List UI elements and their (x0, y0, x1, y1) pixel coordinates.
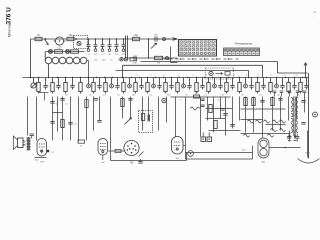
wire hlink4 (266, 124, 286, 126)
capacitor C18 (169, 78, 173, 90)
jack J5 (188, 151, 194, 157)
wire V5 anode (269, 147, 301, 149)
wire stub left (39, 93, 49, 101)
capacitor C47 (301, 123, 305, 125)
resistor R6 (155, 56, 163, 64)
node J3 (166, 57, 169, 60)
capacitor C15 (115, 78, 119, 90)
resistor R49 squiggle (191, 107, 200, 110)
capacitor C32 (50, 122, 54, 124)
svg-text:2k: 2k (241, 95, 243, 97)
resistor R52 squiggle (280, 129, 286, 132)
svg-text:xx: xx (246, 75, 248, 77)
trimmer box T1 dashed (74, 36, 88, 49)
wire vertical drops (28, 97, 305, 153)
wire hlink1 (241, 108, 286, 110)
svg-text:1731: 1731 (40, 162, 46, 164)
capacitor C2 (94, 38, 99, 56)
svg-text:376 U: 376 U (6, 7, 13, 25)
capacitor C45 (26, 134, 34, 141)
svg-text:xx: xx (164, 75, 166, 77)
tube V5 AZ1 rectifier (258, 138, 269, 164)
capacitor C50 (220, 109, 224, 111)
resistor R45 (78, 140, 85, 148)
resistor R31 (121, 99, 124, 107)
wire under V2 V3 (109, 151, 187, 161)
switch contacts left (120, 58, 137, 61)
node J1 (75, 38, 77, 40)
svg-text:1M: 1M (157, 63, 160, 65)
value labels (35, 60, 299, 106)
resistor R25 (238, 78, 241, 94)
wire coil end drop (88, 61, 90, 78)
resistor R36 (252, 98, 255, 106)
svg-text:2k: 2k (89, 95, 91, 97)
resistor R5 (133, 34, 140, 41)
capacitor C14 (97, 78, 101, 90)
node heater (47, 150, 55, 154)
transformer TR2 output (23, 137, 31, 151)
resistor R37 (271, 98, 274, 106)
capacitor C42 (295, 134, 299, 142)
svg-text:xx: xx (296, 75, 298, 77)
resistor R1 (35, 34, 42, 41)
resistor R50 bowtie (115, 149, 121, 152)
resistor R44 squiggle (268, 134, 274, 137)
lamp LS1 (54, 37, 66, 50)
capacitor C8 (133, 56, 137, 65)
switch mains S3 (201, 133, 212, 142)
node grid cap G1 (162, 98, 166, 102)
shield divider (126, 36, 128, 59)
wire hlink3 (241, 133, 291, 135)
capacitor C17 (157, 78, 161, 90)
svg-text:xx: xx (178, 75, 180, 77)
svg-text:5k: 5k (55, 104, 57, 106)
capacitor C13 (70, 78, 74, 90)
svg-text:xx: xx (258, 75, 260, 77)
wire grid link (171, 96, 231, 98)
wire shield box top A (141, 62, 308, 74)
resistor R23 (207, 78, 210, 94)
svg-text:xx: xx (270, 75, 272, 77)
resistor R21 (176, 78, 179, 94)
resistor R14 (79, 78, 82, 94)
switch S1a (49, 50, 53, 54)
capacitor C7 (154, 34, 161, 41)
svg-text:6k: 6k (297, 95, 299, 97)
capacitor C33 (68, 123, 77, 126)
tube V4 (172, 137, 184, 161)
tube V2 ECH4 (98, 139, 108, 165)
capacitor C20 (200, 78, 204, 90)
potentiometer arrow P1 (151, 43, 157, 49)
svg-text:Minerva: Minerva (8, 24, 12, 37)
resistor R30 (61, 120, 64, 128)
switch S1b (66, 50, 70, 54)
resistor R35 (244, 98, 247, 106)
contact K4 (152, 78, 156, 88)
wire second row (128, 57, 178, 59)
resistor R40 squiggle (264, 120, 270, 123)
wire bottom long A (186, 152, 253, 154)
resistor R20 (164, 78, 167, 94)
label Pressautomat (235, 42, 252, 46)
capacitor C41 (287, 134, 291, 142)
svg-text:220V: 220V (305, 153, 311, 155)
antenna arrow A (45, 38, 49, 44)
wire hlink2 (241, 119, 263, 121)
wire top input bus (31, 38, 171, 40)
transformer TR1 mains (291, 97, 298, 136)
capacitor C23 (249, 78, 253, 90)
speaker SP1 (13, 136, 23, 150)
contact K2 (110, 78, 114, 88)
contact row under S2 (164, 58, 239, 60)
capacitor C27 (304, 78, 308, 90)
capacitor C26 (292, 78, 296, 90)
switch table S2 legend (224, 48, 260, 56)
contact K6 (213, 78, 217, 88)
svg-text:xx: xx (150, 75, 152, 77)
contact K8 (275, 78, 279, 88)
label row above bus (136, 75, 298, 77)
capacitor C37 (260, 101, 264, 103)
resistor R15 (92, 78, 95, 94)
resistor R19 (146, 78, 149, 94)
resistor R33 (209, 105, 212, 113)
oscillator box dashed (206, 68, 234, 79)
capacitor C6 (122, 38, 126, 56)
wire links output stage (206, 109, 241, 131)
capacitor C31 (60, 99, 64, 101)
capacitor C12 (56, 78, 60, 90)
capacitor C3 (101, 38, 105, 56)
resistor R27 (269, 78, 272, 94)
resistor R13 (64, 78, 67, 94)
wire to switch (166, 38, 178, 41)
resistor R3 (55, 50, 63, 53)
capacitor C16 (139, 78, 143, 90)
capacitor C21 (218, 78, 222, 90)
capacitor C40 (138, 152, 143, 164)
node J2 (163, 38, 166, 41)
resistor R4 (71, 50, 79, 53)
capacitor C19 (187, 78, 191, 90)
label 220V (305, 153, 311, 155)
potentiometer P2 (31, 78, 36, 89)
label 220 (242, 150, 246, 152)
capacitor C52 (200, 105, 204, 107)
capacitor C1 (87, 38, 91, 56)
tube V1 EL3 (37, 139, 47, 164)
capacitor row top right (273, 91, 307, 97)
diode D2 (293, 131, 296, 141)
capacitor C35 (223, 114, 227, 116)
wire main bus (23, 77, 309, 78)
capacitor C4 (108, 38, 113, 56)
wire speaker link (23, 142, 26, 145)
capacitor C24 (261, 78, 265, 90)
resistor R34 (214, 121, 217, 129)
capacitor C51 (200, 99, 204, 101)
lamp LS2 (313, 112, 318, 117)
contact K5 (182, 78, 186, 88)
wire left drop (30, 39, 32, 78)
capacitor C5 (115, 38, 120, 56)
wire under V1 (35, 158, 47, 162)
capacitor C11 (43, 78, 47, 90)
svg-text:xx: xx (206, 75, 208, 77)
tube V3 socket (124, 140, 139, 164)
capacitor C25 (280, 78, 284, 90)
contact K3 (128, 78, 132, 88)
capacitor C22 (230, 78, 234, 90)
wire L link (171, 47, 178, 63)
capacitor C30 (50, 101, 54, 104)
resistor R48 (85, 100, 88, 108)
resistor R16 (104, 78, 107, 94)
transformer IF1 dashed box (139, 111, 153, 133)
resistor R11 (37, 78, 40, 94)
diode D1 (288, 131, 291, 141)
inductor L1 antenna coil (45, 52, 88, 64)
resistor R18 (134, 78, 137, 94)
resistor R2 (67, 34, 74, 41)
svg-text:15k: 15k (122, 54, 125, 56)
svg-text:2k: 2k (80, 146, 82, 148)
svg-text:xx: xx (234, 75, 236, 77)
capacitor C46 (301, 101, 305, 103)
wire band chain (46, 51, 85, 53)
svg-text:xx: xx (284, 75, 286, 77)
resistor R17 (122, 78, 125, 94)
wire bottom long B (186, 146, 253, 160)
contact K1 (87, 78, 91, 88)
potentiometer P3 arrow (125, 118, 132, 125)
svg-text:Pressautomat: Pressautomat (235, 42, 252, 46)
wire V4 link (183, 145, 186, 147)
resistor R24 (225, 78, 228, 94)
wire mains drop (307, 131, 309, 158)
capacitor C34 (128, 99, 132, 101)
resistor R22 (195, 78, 198, 94)
resistor R26 (256, 78, 259, 94)
wire right edge (308, 73, 310, 151)
resistor R41 squiggle (273, 120, 279, 123)
resistor R51 squiggle (271, 129, 277, 132)
svg-text:xx: xx (192, 75, 194, 77)
resistor R12 (51, 78, 54, 94)
svg-text:xx: xx (136, 75, 138, 77)
wire shield box top C (116, 71, 249, 78)
title Minerva 376 U (6, 7, 13, 37)
resistor R42 squiggle (280, 120, 286, 123)
wire coil to bus (48, 64, 50, 78)
resistor R39 squiggle (256, 120, 262, 123)
capacitor C38 (278, 99, 282, 101)
resistor R28 (287, 78, 290, 94)
svg-text:1M: 1M (167, 95, 170, 97)
contact K7 (244, 78, 248, 88)
switch bank S2 Pressautomat (179, 40, 217, 57)
wire link (53, 112, 63, 114)
resistor R38 squiggle (248, 120, 254, 123)
mains curve (298, 151, 320, 164)
capacitor C49 (97, 121, 101, 123)
capacitor C48 (94, 99, 98, 101)
antenna arrow up (304, 63, 307, 79)
svg-text:x: x (180, 100, 181, 102)
resistor R43 squiggle (244, 134, 250, 137)
wire shield box top B (123, 65, 263, 77)
page mark (313, 10, 317, 18)
resistor R29 (299, 78, 302, 94)
svg-text:10k: 10k (132, 95, 135, 97)
wire link vertical (148, 38, 149, 58)
resistor R32 (194, 93, 200, 99)
capacitor C36 (230, 125, 234, 127)
